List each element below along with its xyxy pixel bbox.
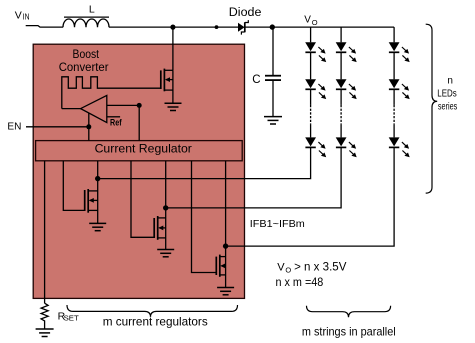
svg-text:m current regulators: m current regulators xyxy=(103,314,208,328)
LED D32 xyxy=(389,79,410,99)
ground (M2 source) xyxy=(157,250,174,257)
svg-text:V: V xyxy=(277,261,285,273)
node EN junction xyxy=(86,124,91,129)
wire string1 to M1 drain xyxy=(98,147,311,178)
svg-text:n: n xyxy=(447,75,453,86)
LED D21 xyxy=(336,42,357,62)
brace m current regulators xyxy=(67,305,238,317)
node small dot at diode anode xyxy=(215,25,219,29)
svg-text:IN: IN xyxy=(23,13,30,22)
svg-text:n x m =48: n x m =48 xyxy=(276,277,324,289)
transistor M3 xyxy=(216,246,225,287)
wire string2 top xyxy=(340,27,342,42)
wire xyxy=(393,125,395,138)
label VO xyxy=(304,15,318,28)
ground (M1 source) xyxy=(89,223,106,230)
wire Ref input stub xyxy=(107,116,120,118)
wire xyxy=(340,125,342,138)
wire M3 drain sense to current regulator xyxy=(225,161,227,246)
inductor L xyxy=(63,17,109,27)
wire xyxy=(310,125,312,138)
capacitor C xyxy=(265,27,281,116)
node M1 drain xyxy=(95,176,100,181)
wire dotted continuation xyxy=(393,105,395,125)
wire diode to VO node xyxy=(246,26,273,28)
wire xyxy=(310,89,312,105)
svg-text:C: C xyxy=(252,74,260,86)
ground (Q1 source) xyxy=(165,103,182,110)
wire xyxy=(310,52,312,79)
wire string3 to M3 drain xyxy=(226,147,395,246)
wire string2 to M2 drain xyxy=(166,147,341,208)
svg-text:EN: EN xyxy=(7,121,21,133)
wire VO rail to strings xyxy=(272,26,394,28)
node M3 drain xyxy=(223,243,228,248)
wire feedback input xyxy=(107,105,139,140)
svg-text:IFB1~IFBm: IFB1~IFBm xyxy=(250,218,305,230)
wire VIN to inductor xyxy=(26,26,63,28)
svg-text:O: O xyxy=(285,265,291,274)
svg-text:Current Regulator: Current Regulator xyxy=(95,142,192,156)
wire xyxy=(340,89,342,105)
wire inductor to junction xyxy=(109,26,238,28)
transistor Q1 (boost switch) xyxy=(161,27,173,103)
wire M1 drain sense to current regulator xyxy=(97,161,99,179)
LED D11 xyxy=(305,42,326,62)
wire xyxy=(393,89,395,105)
brace m strings in parallel xyxy=(307,306,391,317)
node VIN label xyxy=(15,10,30,22)
LED D33 xyxy=(389,137,410,157)
svg-text:Converter: Converter xyxy=(59,60,109,74)
node junction at switch xyxy=(170,25,175,30)
brace n LEDs series xyxy=(426,24,438,193)
wire M1 gate from current regulator xyxy=(63,161,84,211)
LED D23 xyxy=(336,137,357,157)
wire string3 top xyxy=(393,27,395,42)
svg-text:Diode: Diode xyxy=(229,7,262,19)
LED D22 xyxy=(336,79,357,99)
svg-text:O: O xyxy=(312,18,318,27)
svg-text:LEDs: LEDs xyxy=(437,89,456,100)
wire op-amp output xyxy=(62,108,81,110)
op-amp U2 (error amplifier) xyxy=(62,95,142,140)
label n LEDs series xyxy=(437,75,457,112)
LED string 3 xyxy=(226,27,410,246)
wire M2 drain sense to current regulator xyxy=(165,161,167,208)
current regulator block xyxy=(36,141,243,161)
wire EN vertical to current regulator xyxy=(88,113,90,141)
label Boost Converter xyxy=(59,47,109,74)
LED string 2 xyxy=(166,27,357,208)
wire M3 gate from current regulator xyxy=(192,161,217,273)
ground (RSET) xyxy=(36,329,54,337)
svg-text:m strings in parallel: m strings in parallel xyxy=(302,324,396,338)
svg-text:SET: SET xyxy=(64,316,80,323)
svg-text:> n x 3.5V: > n x 3.5V xyxy=(294,261,347,273)
LED D13 xyxy=(305,137,326,157)
wire EN xyxy=(26,126,89,128)
svg-text:V: V xyxy=(304,15,311,26)
IC body box U1 xyxy=(33,44,244,298)
transistor M1 xyxy=(85,179,98,224)
node VO junction xyxy=(270,24,275,29)
resistor RSET xyxy=(41,303,48,329)
wire string1 top xyxy=(310,27,312,42)
wire dotted continuation xyxy=(340,105,342,125)
wire M2 gate from current regulator xyxy=(131,161,154,238)
transistor M2 xyxy=(154,208,166,250)
node M2 drain xyxy=(163,205,168,210)
LED D12 xyxy=(305,79,326,99)
svg-text:Ref: Ref xyxy=(110,117,122,127)
wire xyxy=(340,52,342,79)
ground (capacitor) xyxy=(264,117,282,124)
label RSET xyxy=(58,311,80,323)
ground (M3 source) xyxy=(217,288,234,295)
wire dotted continuation xyxy=(310,105,312,125)
LED D31 xyxy=(389,42,410,62)
wire drain from junction xyxy=(172,27,174,70)
svg-text:series: series xyxy=(438,102,457,113)
LED string 1 xyxy=(98,27,327,179)
label VO > n x 3.5V xyxy=(277,261,346,274)
svg-text:V: V xyxy=(15,10,22,22)
diode D1 (Schottky) xyxy=(238,20,248,34)
PWM waveform and gate wire xyxy=(62,77,160,109)
wire RSET line from current regulator xyxy=(44,161,46,303)
svg-text:L: L xyxy=(89,4,95,16)
wire xyxy=(393,52,395,79)
node feedback junction xyxy=(137,103,142,108)
